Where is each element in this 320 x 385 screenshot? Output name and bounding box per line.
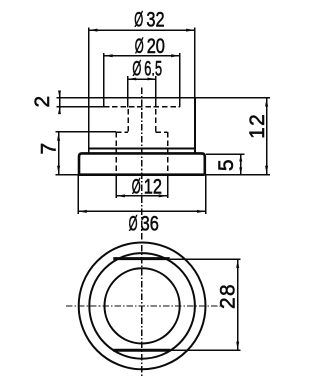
dim Ø6.5 arrow left	[128, 78, 136, 81]
svg-text:5: 5	[215, 159, 238, 171]
Ø12 recess ceiling hidden left	[116, 131, 128, 133]
dim Ø20 line	[104, 55, 180, 57]
dim 28 arrow top	[236, 259, 239, 268]
svg-text:Ø: Ø	[132, 57, 141, 81]
dim Ø6.5 arrow right	[148, 78, 156, 81]
Ø6.5 hole wall left (solid extension)	[127, 76, 129, 108]
centerline vertical axis	[141, 88, 143, 377]
dim 2 line	[59, 92, 61, 113]
dim 5 arrow bottom	[239, 167, 242, 174]
bottom view body circle Ø32	[89, 253, 195, 359]
Ø6.5 hole wall right (solid extension)	[155, 76, 157, 108]
svg-text:2: 2	[31, 96, 54, 108]
dim Ø12 extension left	[115, 175, 117, 198]
dim Ø32 extension left	[88, 28, 90, 98]
dim Ø12 line	[116, 195, 167, 197]
svg-text:12: 12	[144, 174, 162, 197]
dim Ø32 line	[89, 29, 195, 31]
dim Ø12 arrow left	[116, 194, 125, 197]
dim 2 arrow bottom	[58, 107, 61, 114]
dim 7 line	[58, 132, 60, 175]
dim Ø36 arrow right	[197, 210, 206, 213]
svg-text:6.5: 6.5	[144, 56, 162, 80]
dim 2 lower extension	[57, 106, 104, 108]
flange bottom extension right (dims 5,12)	[205, 174, 270, 176]
dim 5 arrow top	[239, 154, 242, 161]
dim Ø32 arrow left	[89, 29, 98, 32]
dim 12 line	[266, 98, 268, 175]
dim Ø12 extension right	[167, 175, 169, 198]
dim Ø32 extension right	[194, 27, 196, 97]
bore flat top chord	[113, 257, 170, 260]
dim Ø36 extension left	[77, 175, 79, 214]
extension line top-right for dim 12	[195, 97, 270, 99]
dim 7 arrow top	[57, 132, 60, 141]
Ø6.5 hole hidden wall right	[155, 109, 157, 132]
dim Ø20 arrow left	[104, 54, 113, 57]
dim Ø36 extension right	[205, 175, 207, 214]
dim 28 bottom extension	[170, 349, 240, 351]
body right edge	[194, 98, 196, 153]
Ø20 recess wall right (solid extension)	[179, 53, 181, 107]
dim Ø6.5 line	[128, 78, 156, 80]
centerline horizontal	[66, 305, 221, 307]
dim 7 top extension	[56, 131, 116, 133]
svg-text:Ø: Ø	[132, 175, 141, 199]
dim 12 arrow bottom	[265, 166, 268, 175]
dim 28 line	[237, 259, 239, 350]
bore flat bottom chord	[113, 349, 170, 352]
body lip line	[89, 148, 195, 150]
svg-text:7: 7	[38, 143, 61, 155]
dim 28 arrow bottom	[236, 342, 239, 351]
svg-text:20: 20	[147, 34, 165, 57]
Ø12 recess hidden wall right	[167, 132, 169, 174]
dim 28 top extension	[170, 258, 241, 260]
dim Ø32 arrow right	[186, 29, 195, 32]
recess bottom hidden line	[104, 106, 180, 108]
bottom view outer circle Ø36	[79, 243, 206, 370]
flange bottom edge	[79, 173, 205, 176]
dim 2 arrow top	[58, 91, 61, 98]
dim Ø20 arrow right	[171, 54, 180, 57]
Ø20 recess wall left (solid extension)	[103, 53, 105, 107]
dim 7 arrow bottom	[57, 166, 60, 175]
flange outline	[79, 153, 205, 174]
flange bottom extension left (dim 7)	[56, 174, 79, 176]
extension line top-left for dim 2	[57, 97, 89, 99]
bottom view bore circle	[105, 268, 180, 343]
dim 5 top extension	[206, 153, 244, 155]
dim 5 line	[240, 154, 242, 174]
part top edge	[89, 97, 195, 99]
dim Ø36 arrow left	[78, 210, 87, 213]
Ø12 recess hidden wall left	[115, 132, 117, 174]
dim 12 arrow top	[265, 98, 268, 107]
dim Ø36 line	[78, 210, 206, 212]
svg-text:12: 12	[246, 113, 269, 139]
dim Ø12 arrow right	[159, 194, 168, 197]
body left edge	[88, 98, 90, 153]
Ø12 recess ceiling hidden right	[156, 131, 168, 133]
svg-text:36: 36	[141, 212, 159, 235]
svg-text:Ø: Ø	[129, 212, 138, 236]
svg-text:Ø: Ø	[134, 8, 143, 32]
svg-text:Ø: Ø	[135, 34, 144, 58]
svg-text:32: 32	[146, 8, 164, 31]
svg-text:28: 28	[217, 283, 240, 309]
Ø6.5 hole hidden wall left	[127, 109, 129, 132]
